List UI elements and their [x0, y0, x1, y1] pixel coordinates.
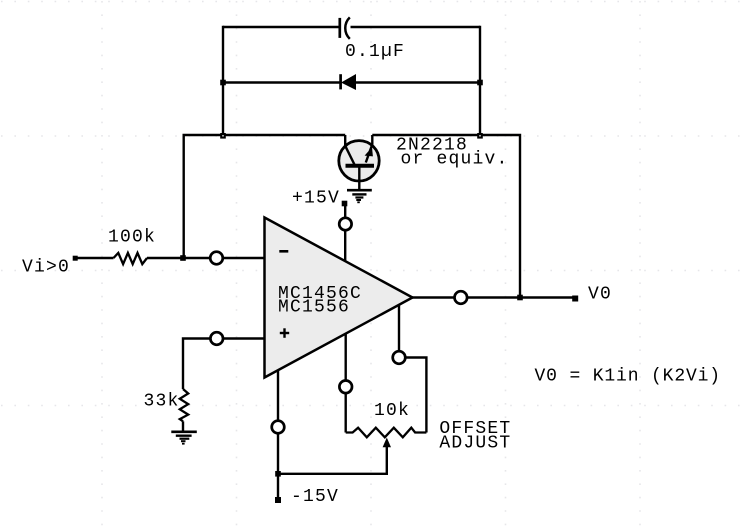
node junction output feedback — [517, 295, 523, 301]
wire top capacitor left — [223, 26, 340, 28]
transistor Q1 body circle — [339, 141, 379, 181]
terminal circle offset left — [339, 381, 352, 394]
svg-text:+15V: +15V — [292, 189, 340, 209]
wire +15V supply — [344, 205, 346, 262]
wire diode left — [223, 81, 341, 83]
input terminal square — [73, 256, 78, 261]
potentiometer R3 10k zigzag — [346, 428, 427, 438]
potentiometer wiper arrow — [383, 438, 391, 448]
transistor Q1 base to ground wire — [358, 166, 360, 191]
svg-text:V0 = K1in (K2Vi): V0 = K1in (K2Vi) — [535, 367, 721, 387]
wire noninverting input — [183, 339, 265, 390]
transistor Q1 emitter arrow — [365, 147, 373, 156]
wire offset left branch — [345, 334, 347, 433]
node junction diode-feedback right — [477, 133, 483, 139]
wire resistor to opamp — [147, 257, 265, 259]
ground for 33k resistor — [171, 432, 197, 444]
op-amp U1 triangle — [265, 218, 413, 378]
capacitor C1 0.1uF plate curved — [345, 17, 350, 39]
terminal circle V- pin — [272, 421, 285, 434]
+15V terminal square — [342, 201, 348, 207]
wire offset right branch — [399, 305, 426, 433]
wire feedback top left segment — [184, 135, 346, 258]
node junction cap-diode right — [477, 80, 483, 86]
resistor R2 33k zigzag — [180, 389, 188, 421]
terminal circle output — [455, 291, 468, 304]
op-amp plus input label — [280, 328, 289, 338]
transistor Q1 base bar — [346, 164, 375, 168]
svg-text:10k: 10k — [374, 401, 410, 421]
wire output — [413, 296, 575, 298]
wire -15V to pot wiper — [278, 444, 387, 474]
transistor Q1 collector lead — [345, 135, 354, 165]
svg-text:33k: 33k — [144, 392, 180, 412]
wire V- branch vertical — [277, 370, 279, 500]
wire top capacitor right — [351, 26, 481, 28]
output terminal square — [572, 296, 578, 302]
diode D1 triangle — [342, 75, 356, 89]
svg-text:MC1556: MC1556 — [278, 298, 350, 318]
wire diode right — [356, 81, 481, 83]
node junction -15V — [275, 471, 281, 477]
resistor R1 100k zigzag — [114, 253, 148, 264]
svg-text:0.1µF: 0.1µF — [345, 42, 405, 62]
-15V terminal square — [275, 497, 281, 503]
svg-text:Vi>0: Vi>0 — [22, 258, 70, 278]
terminal circle noninverting input — [210, 332, 223, 345]
terminal circle inverting input — [210, 252, 223, 265]
wire inverting input — [75, 257, 114, 259]
op-amp minus input label — [279, 250, 288, 253]
wire right inner vertical — [479, 26, 481, 135]
wire feedback top right segment — [372, 135, 520, 298]
svg-text:-15V: -15V — [291, 487, 339, 507]
terminal circle offset right — [393, 351, 406, 364]
ground for transistor base — [347, 190, 372, 202]
capacitor C1 0.1uF plate flat — [338, 18, 341, 38]
node junction cap-diode left — [220, 80, 226, 86]
transistor Q1 emitter lead — [366, 135, 373, 163]
svg-text:V0: V0 — [588, 285, 612, 305]
wire left inner vertical — [222, 26, 224, 135]
wire 33k to ground — [182, 421, 184, 430]
svg-text:100k: 100k — [108, 228, 156, 248]
diode D1 cathode bar — [339, 74, 342, 89]
node junction diode-feedback left — [220, 133, 226, 139]
node junction inverting input — [180, 255, 186, 261]
+15V terminal circle — [339, 218, 351, 230]
svg-text:or equiv.: or equiv. — [401, 150, 509, 170]
svg-text:ADJUST: ADJUST — [439, 434, 511, 454]
